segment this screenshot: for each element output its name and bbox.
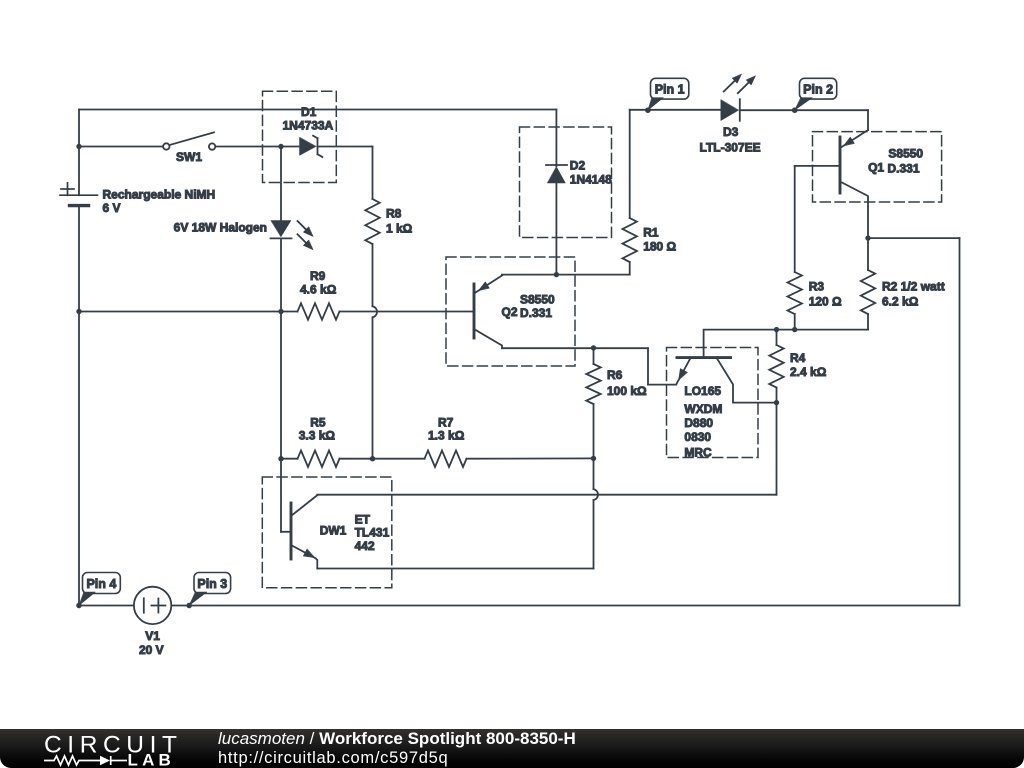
svg-text:LTL-307EE: LTL-307EE xyxy=(700,140,761,154)
svg-text:100 kΩ: 100 kΩ xyxy=(607,384,647,398)
svg-text:3.3 kΩ: 3.3 kΩ xyxy=(299,429,336,443)
svg-text:D880: D880 xyxy=(684,416,713,430)
svg-text:0830: 0830 xyxy=(684,430,711,444)
svg-text:WXDM: WXDM xyxy=(684,402,722,416)
svg-text:R9: R9 xyxy=(310,269,326,283)
svg-text:R4: R4 xyxy=(790,351,806,365)
svg-text:LAB: LAB xyxy=(128,751,176,768)
svg-text:R3: R3 xyxy=(809,279,825,293)
svg-text:442: 442 xyxy=(355,539,375,553)
svg-text:R1: R1 xyxy=(643,226,659,240)
svg-text:D2: D2 xyxy=(570,159,586,173)
svg-text:6V 18W Halogen: 6V 18W Halogen xyxy=(174,221,267,235)
svg-text:D3: D3 xyxy=(723,125,739,139)
svg-text:D.331: D.331 xyxy=(888,162,920,176)
svg-text:R7: R7 xyxy=(438,416,454,430)
svg-text:Pin 1: Pin 1 xyxy=(655,82,685,96)
svg-text:20 V: 20 V xyxy=(139,643,164,657)
svg-text:MRC: MRC xyxy=(684,446,712,460)
svg-text:Q1: Q1 xyxy=(868,161,884,175)
svg-text:S8550: S8550 xyxy=(888,147,923,161)
svg-text:Rechargeable NiMH: Rechargeable NiMH xyxy=(103,188,216,202)
svg-text:120 Ω: 120 Ω xyxy=(809,294,842,308)
svg-text:SW1: SW1 xyxy=(176,150,202,164)
svg-text:180 Ω: 180 Ω xyxy=(643,240,676,254)
svg-text:V1: V1 xyxy=(145,629,160,643)
svg-text:Pin 4: Pin 4 xyxy=(86,577,116,591)
svg-text:2.4 kΩ: 2.4 kΩ xyxy=(790,365,827,379)
svg-text:S8550: S8550 xyxy=(520,293,555,307)
svg-text:R6: R6 xyxy=(607,368,623,382)
svg-text:6 V: 6 V xyxy=(103,201,121,215)
svg-text:R8: R8 xyxy=(386,207,402,221)
svg-text:Pin 3: Pin 3 xyxy=(197,577,227,591)
svg-text:TL431: TL431 xyxy=(355,526,390,540)
svg-text:6.2 kΩ: 6.2 kΩ xyxy=(882,294,919,308)
svg-text:LO165: LO165 xyxy=(684,384,721,398)
svg-text:1N4733A: 1N4733A xyxy=(283,119,334,133)
svg-text:D.331: D.331 xyxy=(520,306,552,320)
svg-text:Pin 2: Pin 2 xyxy=(803,82,833,96)
svg-text:1N4148: 1N4148 xyxy=(570,173,612,187)
svg-text:R5: R5 xyxy=(310,416,326,430)
svg-text:DW1: DW1 xyxy=(320,524,347,538)
svg-text:D1: D1 xyxy=(301,105,317,119)
svg-text:4.6 kΩ: 4.6 kΩ xyxy=(300,283,337,297)
svg-text:ET: ET xyxy=(355,513,371,527)
svg-text:1.3 kΩ: 1.3 kΩ xyxy=(428,429,465,443)
svg-text:Q2: Q2 xyxy=(502,305,518,319)
svg-text:R2 1/2 watt: R2 1/2 watt xyxy=(882,279,945,293)
svg-text:1 kΩ: 1 kΩ xyxy=(386,222,413,236)
